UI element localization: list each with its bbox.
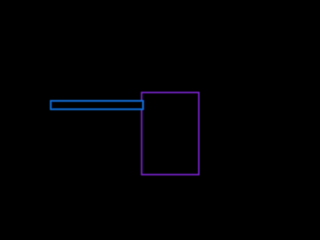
- component body R1 (blue rectangle): [51, 101, 144, 110]
- component outline U1 (purple rectangle): [142, 93, 199, 175]
